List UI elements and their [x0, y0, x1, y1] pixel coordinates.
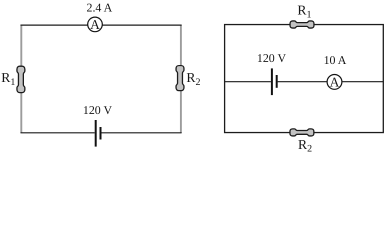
resistor R1 (left circuit): [17, 66, 25, 92]
resistor R2 (left circuit): [176, 66, 184, 91]
wire bottom right segment (left circuit): [101, 132, 181, 134]
svg-text:10 A: 10 A: [324, 53, 347, 67]
svg-text:120 V: 120 V: [257, 51, 287, 65]
ammeter A2 (right circuit): [327, 75, 342, 90]
middle wire left segment (right circuit): [225, 81, 271, 83]
wire left vertical (left circuit): [20, 25, 22, 133]
resistor R1 (right circuit, top): [290, 21, 314, 28]
wire top (left circuit): [21, 24, 182, 26]
battery V1 long plate (left circuit): [95, 120, 97, 147]
middle wire right segment (right circuit): [278, 81, 384, 83]
outer loop rectangle (right circuit): [225, 25, 384, 133]
svg-text:R2: R2: [298, 137, 312, 152]
battery V2 long plate (right circuit): [271, 68, 273, 95]
svg-text:A: A: [330, 74, 340, 89]
svg-text:120 V: 120 V: [83, 103, 113, 117]
resistor R2 (right circuit, bottom): [290, 129, 314, 136]
ammeter A1 (left circuit): [88, 17, 103, 32]
svg-text:R2: R2: [186, 70, 200, 88]
svg-text:R1: R1: [1, 70, 15, 88]
svg-text:A: A: [90, 17, 100, 32]
svg-text:2.4 A: 2.4 A: [87, 1, 113, 15]
wire right vertical (left circuit): [180, 25, 182, 133]
battery V2 short plate (right circuit): [276, 75, 278, 88]
battery V1 short plate (left circuit): [100, 127, 102, 140]
wire bottom left segment (left circuit): [21, 132, 95, 134]
svg-text:R1: R1: [297, 2, 311, 20]
